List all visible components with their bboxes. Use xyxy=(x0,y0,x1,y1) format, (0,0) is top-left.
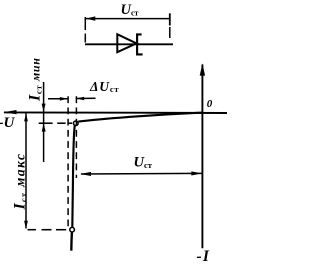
svg-text:-U: -U xyxy=(0,115,15,131)
dimension Iст мин (vertical, arrows outside) xyxy=(42,82,46,162)
dashed vertical line right (Uст max boundary) xyxy=(75,96,77,178)
label Iст мин (rotated) xyxy=(27,57,44,102)
curve reverse branch (0 to knee) xyxy=(78,113,202,122)
svg-text:Iст мин: Iст мин xyxy=(27,57,44,102)
svg-text:0: 0 xyxy=(207,98,213,110)
curve breakdown branch (steep) xyxy=(72,126,75,228)
extension line right (dashed) xyxy=(169,27,171,42)
curve below max point xyxy=(70,232,73,251)
extension line left (dashed) xyxy=(84,17,86,44)
-I axis (vertical) xyxy=(200,63,205,248)
zener diode VD1 cathode bar xyxy=(137,34,143,54)
max current point circle (Iст макс) xyxy=(70,227,75,232)
dimension line Uст over diode xyxy=(85,13,169,25)
-U axis (horizontal) xyxy=(3,110,227,114)
knee point circle (Iст мин) xyxy=(74,121,79,126)
dashed level line Iст макс xyxy=(28,229,67,231)
wire xyxy=(85,43,173,45)
dashed level line Iст мин xyxy=(39,122,72,124)
label Iст макс (rotated) xyxy=(12,153,29,211)
dimension Iст макс (vertical) xyxy=(24,113,28,228)
dashed vertical line left (Uст min boundary) xyxy=(67,96,69,228)
dimension Uст (graph, double arrow) xyxy=(80,171,202,176)
dimension ΔUст (arrows outside) xyxy=(48,97,96,101)
zener diode VD1 triangle xyxy=(117,34,136,52)
svg-text:-I: -I xyxy=(197,248,211,264)
